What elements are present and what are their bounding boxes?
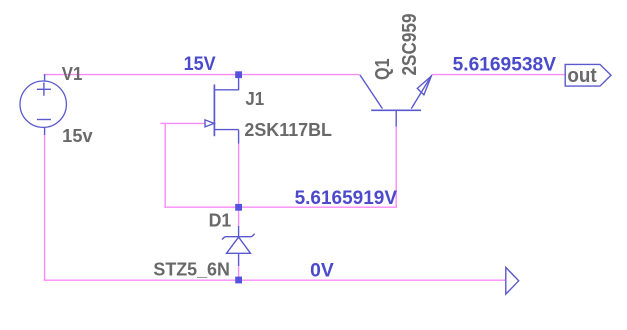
svg-text:D1: D1 [209, 211, 232, 231]
svg-text:out: out [567, 65, 597, 87]
svg-text:2SC959: 2SC959 [399, 14, 421, 76]
svg-text:15v: 15v [62, 126, 92, 146]
svg-text:2SK117BL: 2SK117BL [244, 120, 332, 140]
svg-text:V1: V1 [62, 64, 83, 84]
svg-text:5.6169538V: 5.6169538V [453, 55, 557, 76]
svg-text:0V: 0V [310, 261, 334, 282]
svg-text:Q1: Q1 [372, 58, 394, 80]
svg-text:15V: 15V [184, 54, 216, 75]
svg-text:J1: J1 [245, 89, 264, 109]
svg-text:STZ5_6N: STZ5_6N [153, 259, 230, 279]
svg-text:5.6165919V: 5.6165919V [295, 188, 398, 209]
